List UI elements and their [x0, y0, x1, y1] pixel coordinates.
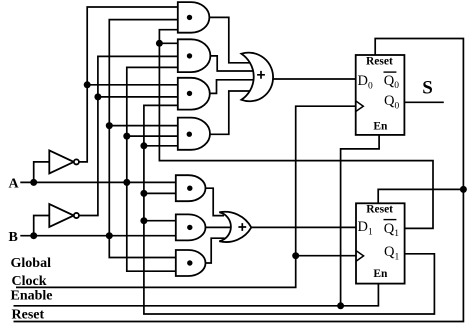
AND dot of G2: [187, 53, 192, 58]
AND gate G5: [176, 175, 206, 201]
svg-text:S: S: [422, 77, 433, 98]
wire gate G5 output to OR gate OR2: [205, 188, 225, 215]
svg-text:Reset: Reset: [366, 204, 393, 216]
junction B wire to B rail: [106, 232, 113, 239]
OR gate OR1: [241, 53, 273, 102]
svg-text:Global: Global: [11, 256, 52, 271]
svg-text:Clock: Clock: [12, 274, 47, 289]
junction Q1 rail to G5: [140, 190, 147, 197]
wire clock branch to FF1 clock input: [296, 255, 356, 257]
svg-text:En: En: [373, 268, 388, 280]
AND gate G3: [178, 78, 210, 110]
inverter U2 bubble: [74, 213, 79, 218]
svg-text:En: En: [373, 120, 388, 132]
wire inverter U1 input from node A: [34, 162, 50, 183]
AND dot of G7: [187, 260, 192, 265]
wire Reset branch to FF1 Reset input: [378, 189, 463, 203]
plus symbol of OR1: [257, 71, 265, 79]
AND gate G7: [176, 250, 206, 276]
svg-text:Enable: Enable: [11, 289, 53, 304]
wire FF0 En down to Enable rail: [341, 135, 380, 306]
wire gate G3 output to OR gate OR1: [210, 80, 253, 94]
wire gate G6 output to OR gate OR2: [205, 226, 232, 228]
wire B branch to gate G4 input 1: [109, 125, 178, 127]
wire Q1 branch to gate G6 input 1: [144, 220, 176, 222]
AND dot of G4: [187, 132, 192, 137]
wire gate G7 output to OR gate OR2: [205, 238, 225, 263]
AND gate G4: [178, 118, 210, 150]
junction reset rail to FF1: [460, 186, 467, 193]
wire gate G4 output to OR gate OR1: [210, 91, 250, 134]
flip-flop FF1 box: [356, 203, 405, 283]
flip-flop FF0 box: [356, 55, 405, 135]
AND gate G2: [178, 39, 211, 72]
wire B rail from gate G1 input 2 down to gate G7 input 1: [109, 20, 178, 258]
wire OR2 output to FF1 D1 input: [251, 226, 356, 228]
inverter U2 triangle: [49, 204, 74, 227]
wire /B branch to gate G3 input 2: [98, 96, 178, 98]
wire gate G2 output to OR gate OR1: [210, 56, 253, 71]
AND dot of G5: [187, 186, 192, 191]
AND dot of G6: [187, 225, 192, 230]
inverter U1 triangle: [49, 150, 74, 173]
junction A wire to A rail: [123, 179, 130, 186]
wire FF0 Q0 output to S: [404, 101, 444, 103]
wire Q1 branch to gate G4 input 3: [144, 145, 178, 147]
junction /A rail to G3: [84, 81, 91, 88]
AND gate G1: [178, 2, 210, 33]
svg-text:Reset: Reset: [12, 307, 45, 322]
wire Q1 feedback rail from gate G3 input 3 down and right to FF1 Q1 output: [144, 105, 435, 314]
wire OR1 output to FF0 D0 input: [273, 78, 356, 80]
overline of FF0 Q0bar: [384, 71, 397, 73]
wire /A branch to gate G3 input 1: [87, 84, 178, 86]
wire Enable rail from Enable label to FF1 En: [14, 284, 379, 306]
overline of FF1 Q1bar: [384, 219, 397, 221]
wire Q1bar feedback rail from gate G1 input 3 down and right to FF1 Q1bar output: [159, 30, 433, 229]
wire Q1bar branch to gate G2 input 1: [159, 42, 177, 44]
junction Q1 rail to G6: [140, 217, 147, 224]
plus symbol of OR2: [238, 223, 246, 231]
svg-text:B: B: [9, 230, 18, 245]
junction enable rail: [337, 302, 344, 309]
wire Q1 branch to gate G5 input 2: [144, 192, 176, 194]
AND dot of G1: [187, 15, 192, 20]
OR gate OR2: [219, 212, 251, 242]
FF1 clock triangle pin: [356, 251, 364, 262]
AND gate G6: [176, 214, 206, 240]
junction B rail to G4: [106, 122, 113, 129]
junction A rail to G4: [123, 133, 130, 140]
junction node A / inverter tap: [30, 179, 37, 186]
wire inverter U2 input from node B: [34, 216, 50, 236]
svg-text:Reset: Reset: [366, 56, 393, 68]
wire clock rail from Clock label up to FF0 clock input: [16, 106, 356, 287]
junction node B / inverter tap: [30, 232, 37, 239]
wire gate G1 output to OR gate OR1: [209, 17, 250, 62]
junction /B rail to G3: [94, 93, 101, 100]
AND dot of G3: [187, 91, 192, 96]
FF0 clock triangle pin: [356, 101, 364, 112]
junction clock rail to FF1: [292, 252, 299, 259]
wire A branch to gate G4 input 2: [127, 135, 178, 137]
junction Q1bar rail to G2: [156, 40, 163, 47]
wire /B rail from inverter U2 output up to gate G2 input 2: [79, 56, 178, 215]
wire input B horizontal to gate G6 input 2: [20, 235, 176, 237]
junction Q1 rail to G4: [140, 142, 147, 149]
svg-text:A: A: [9, 177, 20, 192]
wire /A rail from inverter U1 output up to gate G1 input 1: [79, 7, 178, 162]
wire A rail from gate G2 input 3 down to gate G7 input 2: [127, 67, 178, 271]
wire input A horizontal to gate G5 input 1: [20, 181, 176, 183]
inverter U1 bubble: [74, 159, 79, 164]
